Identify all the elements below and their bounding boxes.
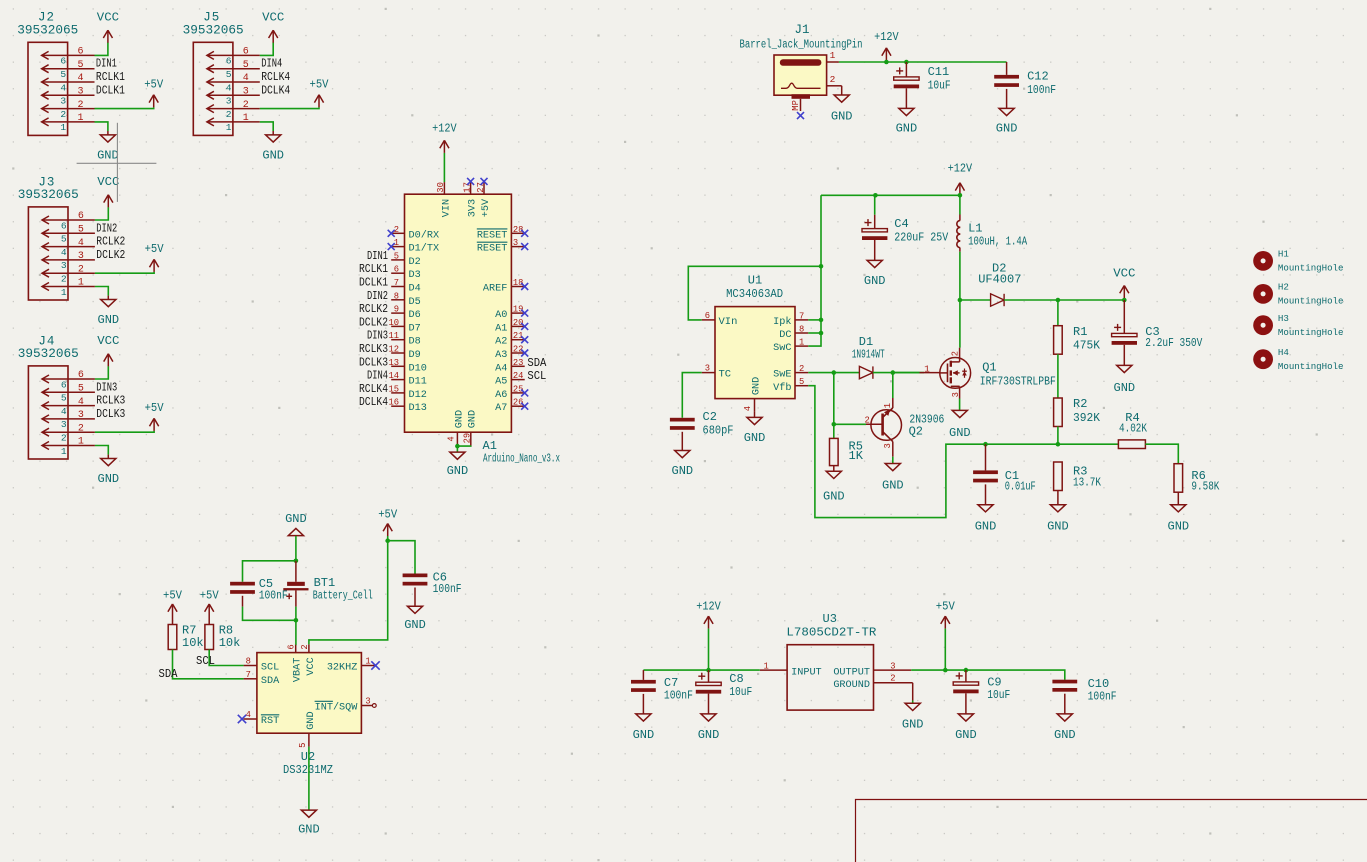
svg-text:392K: 392K (1073, 412, 1100, 425)
ic U2 DS3231MZ (257, 653, 362, 777)
capacitor C1 0.01uF (973, 444, 1036, 533)
svg-text:GND: GND (468, 410, 479, 428)
svg-text:D1/TX: D1/TX (409, 243, 440, 255)
junction +12V arrow (958, 193, 963, 198)
pin 3 (INT/SQW) of U2 (315, 697, 377, 714)
svg-text:100nF: 100nF (1027, 84, 1056, 97)
capacitor C6 100nF (403, 570, 462, 632)
wire U3 ground pin (912, 701, 914, 704)
svg-text:DIN3: DIN3 (367, 330, 388, 343)
svg-text:VCC: VCC (97, 334, 119, 348)
svg-text:DIN3: DIN3 (96, 381, 117, 394)
svg-text:GND: GND (262, 149, 284, 163)
wire L1 to D2 node (959, 252, 961, 300)
pin 12 (D9) of A1 (359, 343, 421, 361)
svg-text:2: 2 (78, 423, 84, 434)
svg-text:D8: D8 (409, 337, 421, 348)
wire J4 pin1 to GND (95, 446, 108, 455)
pin 2 (D0/RX) of A1 (388, 225, 439, 242)
svg-text:5: 5 (394, 251, 399, 261)
pin 19 (A0) of A1 (495, 305, 528, 322)
svg-text:A3: A3 (495, 350, 507, 361)
svg-text:1: 1 (830, 50, 836, 61)
svg-text:3: 3 (705, 364, 710, 374)
svg-text:5: 5 (61, 234, 67, 245)
svg-text:RST: RST (261, 716, 279, 727)
svg-text:39532065: 39532065 (18, 347, 79, 361)
ground (J4) (97, 455, 119, 487)
svg-text:VCC: VCC (97, 11, 119, 25)
wire +12V arrow to rail (708, 629, 710, 671)
junction +12V at arrow (884, 60, 889, 65)
svg-text:1: 1 (799, 338, 804, 348)
connector J4 39532065 (18, 334, 126, 459)
svg-text:Q1: Q1 (982, 360, 996, 374)
resistor R8 10k (205, 617, 240, 650)
svg-text:A1: A1 (495, 323, 507, 334)
svg-text:Vfb: Vfb (773, 382, 791, 394)
resistor R6 9.58K (1167, 464, 1219, 534)
wire R7 to SDA (173, 650, 244, 679)
svg-text:MountingHole: MountingHole (1278, 327, 1344, 338)
svg-text:VBAT: VBAT (293, 658, 304, 682)
svg-text:DIN4: DIN4 (367, 370, 388, 383)
svg-text:MountingHole: MountingHole (1278, 361, 1344, 372)
svg-text:39532065: 39532065 (183, 24, 244, 38)
connector J2 39532065 (17, 11, 125, 136)
junction at R1 top (1056, 298, 1061, 303)
pin 6 (VBAT) of U2 (287, 644, 304, 682)
ic U1 MC34063AD (715, 273, 795, 398)
svg-text:5: 5 (60, 69, 66, 80)
mounting hole H1 (1253, 249, 1343, 274)
pin 7 (SDA) of U2 (244, 670, 281, 687)
svg-text:DCLK1: DCLK1 (96, 84, 125, 97)
svg-text:VIn: VIn (719, 316, 738, 328)
svg-text:GND: GND (823, 490, 845, 504)
svg-text:C9: C9 (987, 676, 1001, 690)
pin 3 (TC) of U1 (702, 364, 731, 381)
svg-text:6: 6 (705, 311, 710, 321)
svg-text:5: 5 (77, 60, 83, 71)
svg-text:3: 3 (61, 260, 67, 271)
capacitor C7 100nF (631, 670, 693, 742)
svg-text:10: 10 (388, 318, 399, 328)
resistor R1 475K (1054, 300, 1100, 354)
svg-text:RCLK3: RCLK3 (359, 343, 388, 356)
ground above BT1 (285, 512, 307, 536)
power +12V (J1) (874, 30, 899, 61)
svg-text:DIN1: DIN1 (96, 58, 117, 71)
svg-text:A1: A1 (483, 439, 497, 453)
svg-text:GND: GND (97, 149, 119, 163)
power VCC (C3) (1113, 267, 1135, 298)
svg-text:SCL: SCL (527, 370, 546, 383)
svg-text:4: 4 (77, 73, 83, 84)
svg-text:+5V: +5V (145, 401, 165, 415)
svg-text:GND: GND (864, 274, 886, 288)
resistor R3 13.7K (1047, 462, 1101, 533)
svg-text:DCLK1: DCLK1 (359, 277, 388, 290)
svg-text:10uF: 10uF (928, 80, 951, 93)
pin 16 (D13) of A1 (359, 396, 427, 414)
pin 30 (VIN) of A1 (436, 182, 452, 217)
svg-text:6: 6 (226, 56, 232, 67)
svg-text:4: 4 (61, 406, 67, 417)
wire BT1 to VBAT (295, 607, 297, 621)
svg-text:4: 4 (78, 397, 84, 408)
svg-text:1: 1 (78, 437, 84, 448)
wire +12V vertical feed (808, 195, 821, 346)
svg-text:OUTPUT: OUTPUT (833, 667, 870, 678)
svg-text:C7: C7 (664, 676, 678, 690)
svg-text:DCLK4: DCLK4 (359, 396, 388, 409)
ground (J3) (97, 296, 119, 328)
svg-text:5: 5 (78, 384, 84, 395)
wire input rail (643, 669, 759, 671)
wire VIN to +12V (443, 153, 445, 182)
wire +5V node (387, 536, 389, 541)
wire J2 pin6 to VCC (95, 43, 108, 56)
svg-text:10k: 10k (182, 636, 204, 650)
svg-text:5: 5 (226, 69, 232, 80)
svg-text:100nF: 100nF (433, 583, 462, 596)
svg-text:4: 4 (743, 406, 753, 411)
svg-text:5: 5 (799, 377, 804, 387)
wire node to D2 anode (960, 299, 991, 301)
junction feedback at R3 (1056, 442, 1061, 447)
svg-text:2: 2 (78, 264, 84, 275)
svg-text:10uF: 10uF (987, 689, 1010, 702)
svg-text:680pF: 680pF (703, 425, 734, 438)
svg-text:RCLK2: RCLK2 (359, 303, 388, 316)
svg-text:C12: C12 (1027, 69, 1049, 83)
wire Q1 gate from D1 (893, 372, 920, 374)
svg-text:SwE: SwE (773, 370, 791, 381)
pin 11 (D8) of A1 (367, 330, 421, 348)
svg-text:39532065: 39532065 (17, 24, 78, 38)
diode D2 UF4007 (978, 261, 1021, 306)
svg-text:DCLK3: DCLK3 (96, 408, 125, 421)
svg-text:D6: D6 (409, 310, 421, 321)
power +12V (A1) (432, 122, 457, 153)
pin MP of J1 (791, 99, 804, 119)
svg-text:VCC: VCC (306, 657, 317, 675)
svg-text:2: 2 (799, 364, 804, 374)
svg-text:U1: U1 (748, 273, 762, 287)
resistor R5 1K (823, 424, 864, 503)
svg-text:C10: C10 (1088, 677, 1110, 691)
wire Ipk tap (808, 319, 821, 321)
svg-text:3: 3 (78, 251, 84, 262)
svg-text:MP: MP (791, 100, 801, 111)
pin 8 (DC) of U1 (779, 325, 808, 342)
svg-text:A2: A2 (495, 337, 507, 348)
svg-text:J5: J5 (203, 11, 220, 25)
svg-text:H4: H4 (1278, 347, 1290, 358)
capacitor C2 680pF (670, 373, 734, 478)
svg-text:VCC: VCC (1113, 267, 1135, 281)
connector J5 39532065 (183, 11, 291, 136)
svg-text:6: 6 (394, 265, 399, 275)
svg-text:R2: R2 (1073, 397, 1087, 411)
pin 8 (SCL) of U2 (244, 657, 280, 674)
svg-text:D4: D4 (409, 284, 421, 295)
svg-text:VIN: VIN (441, 199, 452, 217)
svg-text:1: 1 (764, 661, 769, 671)
svg-text:J2: J2 (38, 11, 55, 25)
wire DC tap (808, 332, 821, 334)
svg-text:+5V: +5V (144, 78, 164, 92)
pin 26 (A7) of A1 (495, 398, 528, 415)
svg-text:4.02K: 4.02K (1119, 423, 1147, 436)
resistor R4 4.02K (1118, 411, 1147, 449)
wire U1 VIn loop to +12V rail (688, 266, 821, 320)
capacitor C5 100nF (230, 577, 288, 607)
pin 10 (D7) of A1 (359, 316, 421, 334)
junction at C3/VCC (1122, 298, 1127, 303)
svg-text:D5: D5 (409, 297, 421, 308)
svg-text:6: 6 (78, 370, 84, 381)
transistor Q2 2N3906 (865, 398, 945, 457)
svg-text:5: 5 (78, 225, 84, 236)
svg-text:DIN4: DIN4 (261, 58, 282, 71)
svg-text:30: 30 (436, 182, 446, 193)
wire J4 pin2 to +5V (95, 431, 154, 432)
svg-text:J3: J3 (38, 175, 55, 189)
svg-text:GND: GND (882, 478, 904, 492)
svg-text:1: 1 (883, 403, 893, 408)
wire R4 to R6 (1145, 444, 1178, 464)
svg-text:BT1: BT1 (314, 576, 336, 590)
svg-text:SDA: SDA (159, 668, 178, 681)
svg-text:3: 3 (890, 661, 895, 671)
svg-text:GND: GND (1167, 519, 1189, 533)
pin 1 (32KHZ) of U2 (327, 657, 380, 674)
wire D1 cathode to Q1 gate (873, 372, 924, 374)
transistor Q1 IRF730STRLPBF (920, 348, 1056, 399)
svg-text:GND: GND (306, 711, 317, 729)
svg-text:A5: A5 (495, 377, 507, 388)
svg-text:D11: D11 (409, 377, 427, 388)
svg-text:VCC: VCC (97, 175, 119, 189)
svg-text:100uH, 1.4A: 100uH, 1.4A (968, 235, 1027, 248)
svg-text:RCLK4: RCLK4 (359, 383, 388, 396)
svg-text:U2: U2 (301, 750, 315, 764)
pin 5 (GND) of U2 (298, 711, 317, 748)
junction VIn tap (819, 264, 824, 269)
svg-text:GND: GND (751, 377, 762, 395)
svg-text:2: 2 (60, 109, 66, 120)
connector J3 39532065 (18, 175, 126, 300)
pin 5 (Vfb) of U1 (773, 377, 808, 394)
ground (J2) (97, 131, 119, 163)
svg-text:GND: GND (285, 512, 307, 526)
pin 18 (AREF) of A1 (483, 278, 528, 295)
svg-text:GND: GND (955, 728, 977, 742)
svg-text:6: 6 (77, 47, 83, 58)
svg-text:16: 16 (388, 398, 399, 408)
junction +5V/C6 (385, 538, 390, 543)
pin 2 of J1 (827, 74, 842, 86)
junction L1/D2/Q1 node (958, 298, 963, 303)
pin 5 (D2) of A1 (367, 250, 421, 268)
svg-text:D0/RX: D0/RX (409, 229, 440, 241)
power +5V (RTC) (378, 508, 398, 537)
wire D2 cathode to VCC node (1004, 299, 1124, 301)
svg-text:A7: A7 (495, 403, 507, 414)
pin 13 (D10) of A1 (359, 356, 427, 374)
wire SwE to D1 and Q2 (808, 372, 859, 374)
power VCC (J3) (97, 175, 119, 207)
junction Ipk tap (819, 318, 824, 323)
svg-text:GND: GND (1054, 728, 1076, 742)
svg-text:3: 3 (365, 697, 370, 707)
wire J5 pin2 to +5V (260, 107, 319, 108)
wire Q1 source to gnd (959, 399, 961, 411)
wire J4 pin6 to VCC (95, 366, 108, 379)
wire gnd to BT1/C5 (295, 536, 297, 561)
svg-text:R1: R1 (1073, 325, 1087, 339)
wire to C5 top (243, 561, 296, 582)
resistor R7 10k (168, 617, 203, 650)
wire top +12V rail to U1 (821, 194, 960, 196)
svg-text:+12V: +12V (432, 122, 457, 136)
svg-text:Barrel_Jack_MountingPin: Barrel_Jack_MountingPin (740, 39, 863, 52)
svg-text:14: 14 (388, 371, 399, 381)
svg-text:3: 3 (951, 392, 961, 397)
svg-text:1: 1 (61, 446, 67, 457)
pin 9 (D6) of A1 (359, 303, 421, 321)
power +5V (U3) (936, 600, 956, 629)
svg-text:GND: GND (97, 313, 119, 327)
svg-text:2: 2 (243, 100, 249, 111)
wire J2 pin2 to +5V (95, 107, 154, 108)
svg-text:+5V: +5V (936, 600, 956, 614)
mounting hole H3 (1253, 313, 1343, 338)
junction D1 cathode / Q2 emitter (891, 370, 896, 375)
pin 6 (D3) of A1 (359, 263, 421, 281)
junction +12V/C8 (706, 668, 711, 673)
svg-text:L1: L1 (968, 221, 982, 235)
battery BT1 Battery_Cell (283, 561, 372, 607)
svg-text:9: 9 (394, 305, 399, 315)
pin 7 (D4) of A1 (359, 277, 421, 295)
svg-text:2.2uF 350V: 2.2uF 350V (1145, 337, 1202, 350)
inductor L1 100uH 1.4A (957, 215, 1027, 252)
svg-text:D9: D9 (409, 350, 421, 361)
pin 2 (VCC) of U2 (300, 644, 317, 675)
svg-text:L7805CD2T-TR: L7805CD2T-TR (786, 626, 876, 639)
ic A1 Arduino_Nano_v3.x (405, 194, 512, 432)
wire R2 to feedback node (1057, 427, 1059, 445)
svg-text:8: 8 (394, 291, 399, 301)
svg-text:3: 3 (513, 238, 518, 248)
svg-text:32KHZ: 32KHZ (327, 663, 358, 674)
power +5V (J5) (310, 78, 330, 108)
svg-text:29: 29 (462, 433, 472, 444)
svg-text:GND: GND (975, 519, 997, 533)
svg-text:2: 2 (77, 100, 83, 111)
svg-text:2: 2 (226, 109, 232, 120)
svg-text:3: 3 (226, 96, 232, 107)
svg-text:SDA: SDA (261, 676, 280, 687)
svg-text:GND: GND (454, 410, 465, 428)
svg-text:GND: GND (97, 472, 119, 486)
svg-text:1: 1 (365, 657, 370, 667)
svg-text:4: 4 (446, 436, 456, 441)
junction feedback at C1 (983, 442, 988, 447)
svg-text:GND: GND (949, 426, 971, 440)
pin 1 (INPUT) of U3 (760, 661, 822, 678)
svg-text:SwC: SwC (773, 343, 791, 354)
svg-text:12: 12 (388, 345, 399, 355)
wire J3 pin1 to GND (95, 287, 108, 296)
junction Q2 base / R5 (832, 422, 837, 427)
svg-text:10uF: 10uF (729, 686, 752, 699)
svg-text:10k: 10k (219, 636, 241, 650)
ground (J5) (262, 131, 284, 163)
svg-text:7: 7 (394, 278, 399, 288)
svg-text:23: 23 (513, 358, 524, 368)
svg-text:MountingHole: MountingHole (1278, 263, 1344, 274)
pin 29 (GND) of A1 (462, 410, 478, 446)
svg-text:+5V: +5V (481, 198, 492, 217)
svg-text:+5V: +5V (200, 588, 220, 602)
svg-text:DCLK2: DCLK2 (96, 249, 125, 262)
svg-text:SCL: SCL (196, 655, 215, 668)
svg-text:DCLK4: DCLK4 (261, 84, 290, 97)
pin 2 (GROUND) of U3 (833, 674, 912, 701)
svg-text:Q2: Q2 (909, 425, 923, 439)
svg-text:4: 4 (78, 238, 84, 249)
svg-text:GND: GND (1047, 519, 1069, 533)
svg-text:GND: GND (744, 431, 766, 445)
capacitor C12 100nF (994, 62, 1056, 136)
svg-text:220uF 25V: 220uF 25V (894, 232, 948, 245)
power +5V (J2) (144, 78, 164, 108)
svg-text:4: 4 (226, 82, 232, 93)
svg-text:5: 5 (61, 393, 67, 404)
svg-text:+12V: +12V (696, 600, 721, 614)
connector J1 Barrel_Jack_MountingPin (740, 23, 863, 99)
svg-text:3V3: 3V3 (468, 199, 479, 217)
svg-text:VCC: VCC (262, 11, 284, 25)
svg-text:H1: H1 (1278, 249, 1290, 260)
wire J5 pin1 to GND (260, 122, 273, 131)
ground (A1) (447, 452, 469, 478)
svg-text:RCLK1: RCLK1 (359, 263, 388, 276)
svg-text:3: 3 (78, 410, 84, 421)
svg-text:UF4007: UF4007 (978, 273, 1021, 287)
svg-text:5: 5 (243, 60, 249, 71)
svg-text:GND: GND (831, 109, 853, 123)
svg-text:2: 2 (61, 433, 67, 444)
capacitor C10 100nF (1052, 677, 1116, 742)
svg-text:GND: GND (404, 618, 426, 632)
pin 4 (GND) of A1 (446, 410, 465, 446)
pin 4 (RST) of U2 (238, 710, 279, 727)
svg-text:GND: GND (1113, 381, 1135, 395)
svg-text:15: 15 (388, 384, 399, 394)
capacitor C3 2.2uF 350V (1112, 300, 1203, 395)
svg-text:RCLK1: RCLK1 (96, 71, 125, 84)
pin 17 (3V3) of A1 (463, 178, 479, 217)
svg-text:3: 3 (243, 87, 249, 98)
ic U3 L7805CD2T-TR (786, 612, 876, 710)
svg-text:GROUND: GROUND (833, 680, 870, 691)
svg-text:475K: 475K (1073, 340, 1100, 353)
